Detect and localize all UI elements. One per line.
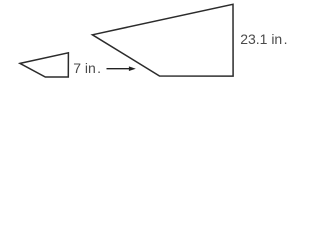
large quadrilateral [92, 4, 233, 76]
small quadrilateral [20, 53, 68, 77]
svg-text:7 in.: 7 in. [73, 60, 101, 76]
svg-text:23.1 in.: 23.1 in. [240, 31, 287, 47]
arrow [107, 66, 136, 71]
